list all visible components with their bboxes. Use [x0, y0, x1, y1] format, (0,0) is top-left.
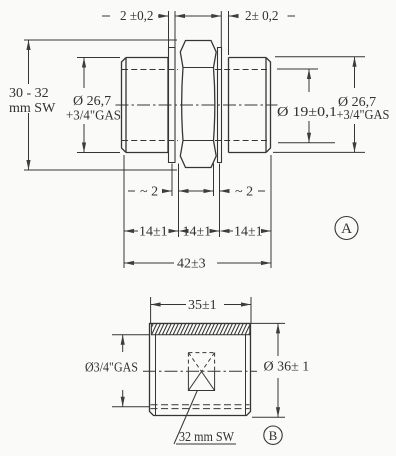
dia 36 dimension line — [277, 323, 279, 417]
35+-1 dimension line — [151, 304, 251, 306]
inner wall line right — [245, 335, 247, 416]
square socket upper diagonals dashed — [188, 353, 214, 372]
leader line 32 mm SW — [174, 391, 197, 445]
dim line 2+-0,2 left — [102, 15, 169, 17]
dia 19 extension lines — [277, 69, 335, 143]
~2 left dim lines — [128, 190, 172, 192]
svg-text:A: A — [341, 221, 352, 237]
~2 middle span — [179, 190, 214, 192]
SW dimension line — [28, 40, 30, 170]
hidden thread dashed lines bottom view — [151, 405, 250, 409]
svg-text:35±1: 35±1 — [188, 298, 217, 313]
svg-text:30 - 32: 30 - 32 — [9, 86, 49, 101]
square socket solid lower outline — [188, 371, 214, 390]
svg-text:Ø3/4"GAS: Ø3/4"GAS — [85, 361, 138, 376]
inner wall line left — [155, 335, 157, 416]
svg-text:2± 0,2: 2± 0,2 — [245, 9, 279, 24]
hex facet line upper — [183, 67, 214, 69]
dim 2+-0,2 left extension pair — [169, 11, 176, 48]
dia 26,7 right extension lines — [273, 57, 365, 153]
14+-1 dimension line row — [124, 230, 271, 232]
body rectangle — [150, 324, 251, 416]
~2 right dim lines — [220, 190, 266, 192]
center line top view — [116, 104, 278, 106]
left joint plate — [169, 48, 176, 163]
left cylinder body — [122, 58, 169, 153]
left cylinder thread dashed lines — [122, 70, 178, 141]
square socket lower diagonals — [188, 372, 214, 391]
svg-text:mm SW: mm SW — [9, 101, 56, 116]
underline 32 mm SW — [176, 443, 236, 445]
35+-1 extension lines — [151, 297, 251, 323]
svg-text:+3/4"GAS: +3/4"GAS — [337, 108, 390, 123]
svg-text:~ 2: ~ 2 — [235, 185, 253, 200]
dim line 2+-0,2 right — [229, 15, 296, 17]
square socket dashed upper outline — [188, 353, 214, 372]
dia 26,7 left dimension line — [83, 58, 85, 153]
dim line 2+-0,2 middle span — [175, 15, 221, 17]
extension line top (SW upper) — [24, 39, 177, 41]
42+-3 dimension line — [124, 262, 271, 264]
detail circle B — [264, 426, 282, 444]
dia 36 extension lines — [251, 323, 286, 417]
dia 26,7 left extension lines — [77, 58, 120, 153]
svg-text:14±1: 14±1 — [234, 225, 263, 240]
gasket hatch band — [151, 323, 249, 334]
svg-text:Ø 19±0,1: Ø 19±0,1 — [277, 105, 337, 120]
svg-text:~ 2: ~ 2 — [140, 185, 158, 200]
svg-text:42±3: 42±3 — [177, 257, 206, 272]
right cylinder body — [229, 58, 271, 153]
dim 2+-0,2 right extension pair — [221, 11, 228, 55]
14 dim extension lines — [124, 155, 271, 268]
~2 right extension pair — [214, 164, 220, 197]
svg-text:Ø 26,7: Ø 26,7 — [73, 94, 111, 109]
extension line bottom (SW lower) — [24, 169, 177, 171]
dia 3/4 GAS extension lines — [112, 335, 150, 407]
center line bottom view — [143, 370, 257, 372]
svg-text:B: B — [269, 428, 278, 443]
right cylinder thread dashed lines — [215, 70, 270, 141]
~2 left extension pair — [172, 164, 179, 197]
svg-text:+3/4"GAS: +3/4"GAS — [66, 109, 121, 124]
dia 3/4 GAS arrows — [122, 335, 124, 407]
svg-text:32 mm SW: 32 mm SW — [179, 430, 235, 445]
hex nut body — [180, 41, 216, 168]
svg-text:2 ±0,2: 2 ±0,2 — [120, 9, 154, 24]
hex facet line lower — [183, 140, 214, 142]
dia 26,7 right dimension line — [354, 57, 356, 153]
right joint plate — [218, 48, 222, 163]
svg-text:Ø 36± 1: Ø 36± 1 — [264, 360, 310, 375]
svg-text:14±1: 14±1 — [139, 225, 168, 240]
detail circle A — [335, 217, 358, 240]
dia 19 dimension arrows — [308, 69, 310, 92]
svg-text:14±1: 14±1 — [183, 225, 212, 240]
